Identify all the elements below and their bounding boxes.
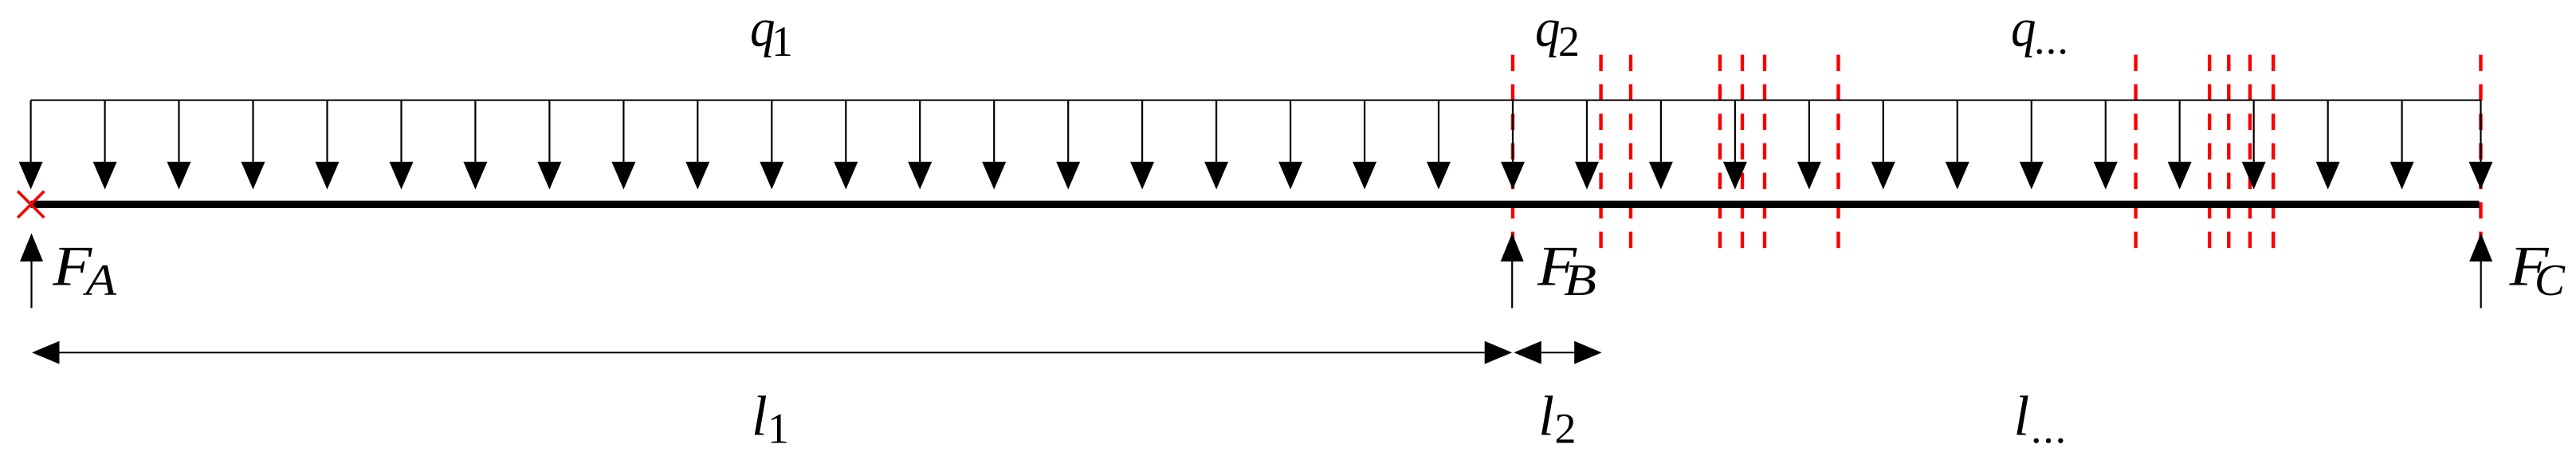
- load arrow 6: [400, 100, 402, 165]
- load arrow 22: [1586, 100, 1588, 165]
- svg-text:q: q: [1535, 0, 1561, 58]
- load arrow 12: [845, 100, 846, 165]
- red dashed boundary line 6 at x=2214: [1763, 55, 1766, 249]
- load arrow 14: [993, 100, 995, 165]
- load arrow 17: [1215, 100, 1217, 165]
- red dashed boundary line 5 at x=2186: [1741, 55, 1744, 249]
- dimension line l1: [60, 352, 1485, 353]
- load arrow 9: [622, 100, 624, 165]
- red dashed boundary line 10 at x=2796: [2227, 55, 2230, 249]
- load arrow 7: [474, 100, 476, 165]
- svg-text:l: l: [752, 385, 768, 447]
- red dashed boundary line 2 at x=2009: [1599, 55, 1602, 249]
- load arrow 25: [1808, 100, 1810, 165]
- svg-text:...: ...: [2034, 15, 2069, 63]
- load arrow 26: [1883, 100, 1884, 165]
- red dashed boundary line 9 at x=2772: [2208, 55, 2211, 249]
- svg-text:B: B: [1564, 256, 1596, 305]
- red dashed boundary line 3 at x=2046: [1629, 55, 1632, 249]
- load arrow 34: [2480, 100, 2481, 165]
- svg-text:q: q: [2011, 0, 2036, 58]
- load arrow 29: [2105, 100, 2107, 165]
- load arrow 11: [771, 100, 772, 165]
- svg-text:1: 1: [768, 404, 789, 452]
- svg-text:2: 2: [1555, 404, 1577, 452]
- support force arrow F_A: [30, 258, 32, 309]
- load arrow 2: [104, 100, 106, 165]
- svg-text:1: 1: [772, 18, 793, 65]
- dimension line l2: [1541, 352, 1574, 353]
- load arrow 3: [178, 100, 179, 165]
- load arrow 18: [1290, 100, 1291, 165]
- load arrow 30: [2179, 100, 2181, 165]
- load arrow 16: [1141, 100, 1143, 165]
- load arrow 27: [1957, 100, 1958, 165]
- red cross node A: [18, 191, 44, 218]
- load arrow 8: [548, 100, 550, 165]
- load arrow 32: [2327, 100, 2329, 165]
- red dashed boundary line 12 at x=2852: [2272, 55, 2275, 249]
- load arrow 24: [1734, 100, 1736, 165]
- svg-text:A: A: [82, 256, 117, 305]
- support force arrow F_C: [2480, 258, 2482, 309]
- red dashed boundary line 11 at x=2823: [2248, 55, 2252, 249]
- support force arrow F_B: [1511, 258, 1513, 309]
- svg-text:C: C: [2535, 256, 2566, 305]
- load arrow 4: [252, 100, 253, 165]
- red dashed boundary line 13 at x=3112: [2479, 55, 2482, 249]
- svg-text:2: 2: [1558, 18, 1580, 65]
- load arrow 20: [1438, 100, 1439, 165]
- load arrow 19: [1364, 100, 1365, 165]
- load arrow 13: [919, 100, 921, 165]
- load arrow 31: [2253, 100, 2255, 165]
- load arrow 33: [2401, 100, 2403, 165]
- distributed load top line: [31, 100, 2481, 101]
- load arrow 23: [1660, 100, 1662, 165]
- load arrow 28: [2031, 100, 2032, 165]
- load arrow 10: [697, 100, 698, 165]
- svg-text:...: ...: [2031, 404, 2067, 452]
- red dashed boundary line 1 at x=1898: [1511, 55, 1514, 249]
- load arrow 5: [326, 100, 328, 165]
- svg-text:l: l: [2014, 386, 2030, 448]
- red dashed boundary line 8 at x=2680: [2134, 55, 2137, 249]
- load arrow 21: [1512, 100, 1514, 165]
- red dashed boundary line 4 at x=2158: [1718, 55, 1722, 249]
- red dashed boundary line 7 at x=2306: [1836, 55, 1840, 249]
- svg-text:l: l: [1538, 385, 1554, 447]
- beam: [31, 201, 2480, 208]
- load arrow 1: [29, 100, 31, 165]
- load arrow 15: [1067, 100, 1069, 165]
